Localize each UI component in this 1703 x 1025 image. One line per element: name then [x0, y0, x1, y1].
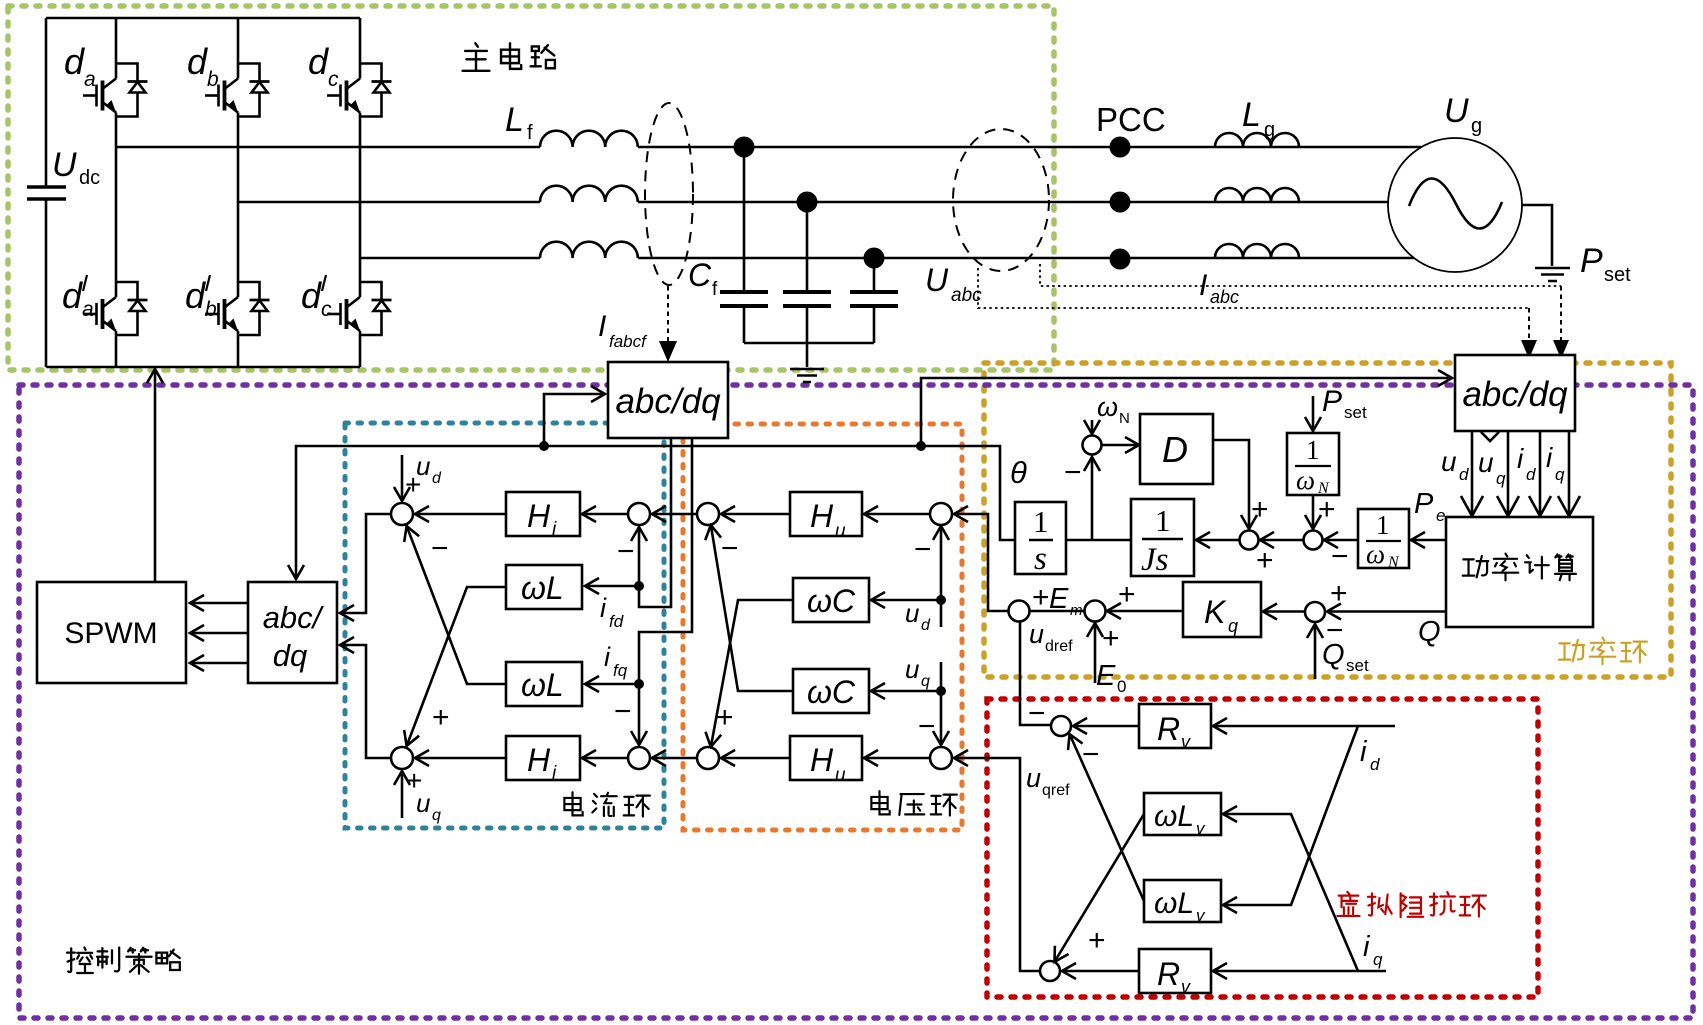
wire V2 out — [653, 757, 697, 760]
wire RT out to A — [1020, 621, 1051, 725]
svg-text:c: c — [321, 298, 332, 321]
phase line b — [238, 201, 1388, 204]
wire theta to mid abc/dq — [544, 394, 604, 446]
current-loop region box (teal dashed) — [345, 423, 664, 828]
capacitor Cf phase b — [783, 202, 831, 343]
block abc/dq small — [248, 582, 337, 683]
capacitor Cf phase a — [720, 147, 768, 343]
svg-text:I: I — [1199, 269, 1207, 302]
svg-text:qref: qref — [1042, 782, 1070, 799]
wire Hi top out — [416, 513, 506, 516]
svg-text:d: d — [432, 470, 442, 487]
svg-text:ωL: ωL — [1154, 800, 1194, 833]
svg-text:v: v — [1181, 977, 1191, 997]
svg-text:ω: ω — [1296, 465, 1315, 495]
wire T2 out — [341, 645, 391, 758]
svg-text:ω: ω — [1366, 539, 1385, 569]
junction dot u_q — [936, 686, 946, 696]
wire i_d line — [1214, 725, 1395, 728]
svg-text:d: d — [62, 275, 83, 316]
wire 1/Js to 1/s — [1066, 539, 1131, 542]
block D — [1140, 414, 1213, 484]
svg-text:i: i — [1360, 736, 1368, 768]
wire B to A — [1029, 610, 1085, 613]
stub E_0 — [1094, 624, 1097, 683]
block Hi top — [506, 492, 580, 536]
wire T1 out — [341, 514, 391, 613]
svg-text:f: f — [712, 279, 718, 300]
svg-text:q: q — [1555, 465, 1565, 484]
svg-text:D: D — [1162, 429, 1188, 470]
svg-text:+: + — [1088, 924, 1106, 957]
DC left rail upper segment — [45, 18, 48, 187]
summing circle W3 — [1304, 531, 1323, 550]
wire Q to W4 — [1328, 610, 1446, 613]
stub P_set — [1312, 396, 1315, 430]
label 电压环 (voltage loop) — [871, 791, 956, 815]
summing circle V4 — [930, 747, 952, 769]
wire i_fd — [639, 438, 671, 607]
svg-text:u: u — [1026, 763, 1041, 793]
svg-text:U: U — [52, 146, 77, 184]
svg-text:u: u — [416, 788, 430, 818]
ground of filter — [790, 369, 824, 382]
block abc/dq right — [1455, 355, 1575, 431]
wire u_d to wC — [872, 599, 941, 602]
grid source Ug — [1388, 138, 1522, 272]
leg A wire segments — [115, 18, 118, 367]
block Rv top — [1139, 704, 1211, 748]
svg-text:1: 1 — [1306, 435, 1320, 465]
wire Hu top out — [722, 513, 790, 516]
control-strategy region box (purple dashed) — [19, 385, 1693, 1018]
stub u_q — [401, 772, 404, 818]
svg-text:i: i — [1363, 931, 1371, 963]
junction dot i_fd — [634, 581, 644, 591]
svg-text:d: d — [187, 41, 208, 82]
summing circle V2 — [697, 747, 719, 769]
block 1/Js — [1131, 499, 1194, 576]
label 虚拟阻抗环 (virtual impedance loop, red) — [1337, 892, 1485, 917]
svg-text:θ: θ — [1010, 455, 1027, 490]
summing circle RT — [1051, 716, 1071, 736]
wire T3 out — [583, 513, 628, 516]
block power calc — [1446, 517, 1593, 627]
DC bus bottom rail — [46, 366, 360, 369]
block Kq — [1183, 582, 1261, 637]
svg-text:U: U — [1444, 92, 1469, 130]
block wLv top — [1144, 793, 1221, 835]
wires abc/dq to SPWM — [191, 602, 248, 605]
svg-text:−: − — [918, 710, 936, 743]
dotted measurement line U — [978, 268, 1529, 308]
wire u_q output down — [1507, 431, 1510, 515]
wire W1 to D — [1101, 444, 1138, 447]
junction dot u_d — [936, 595, 946, 605]
svg-text:i: i — [1517, 443, 1524, 474]
svg-text:N: N — [1119, 410, 1130, 427]
svg-text:a: a — [82, 298, 94, 321]
svg-text:q: q — [432, 807, 441, 824]
svg-text:d: d — [921, 617, 931, 634]
svg-text:fabcf: fabcf — [609, 332, 648, 351]
block wL bottom — [506, 662, 582, 706]
dashed arrow I_fabcf into abc/dq — [667, 286, 669, 344]
svg-text:v: v — [1181, 732, 1191, 752]
svg-text:Q: Q — [1418, 616, 1441, 648]
svg-text:dq: dq — [273, 638, 308, 673]
svg-text:s: s — [1034, 541, 1047, 577]
DC left rail lower segment — [45, 199, 48, 367]
wire u_q to wC — [872, 690, 941, 693]
wire theta to right abc/dq — [921, 378, 1451, 446]
main-circuit region box (green dashed) — [8, 6, 1054, 370]
junction dot i_fq — [634, 679, 644, 689]
wire i_d cross to wLv bottom — [1224, 726, 1358, 905]
wire wC top cross to V2 — [711, 600, 793, 746]
svg-text:R: R — [1157, 956, 1180, 992]
junction dot phase b — [797, 192, 818, 213]
svg-text:dref: dref — [1045, 638, 1073, 655]
wire W3 to W2 — [1261, 539, 1303, 542]
capacitor Udc plates — [27, 187, 66, 199]
wire omega feedback — [1091, 458, 1094, 540]
svg-text:u: u — [1478, 447, 1494, 478]
svg-text:d: d — [185, 275, 206, 316]
svg-text:SPWM: SPWM — [64, 617, 157, 650]
svg-text:u: u — [835, 765, 846, 786]
wire u_d net — [940, 527, 943, 627]
summing circle T2 — [391, 747, 413, 769]
svg-text:N: N — [1387, 554, 1400, 571]
voltage-loop region box (orange dashed) — [683, 424, 962, 830]
svg-text:d: d — [1370, 755, 1380, 774]
block Hu top — [790, 492, 862, 536]
summing circle B — [1085, 601, 1106, 622]
svg-text:PCC: PCC — [1096, 101, 1166, 138]
svg-text:set: set — [1344, 403, 1367, 422]
svg-text:d: d — [1459, 465, 1469, 484]
summing circle W2 — [1240, 531, 1259, 550]
svg-text:u: u — [905, 598, 919, 628]
svg-text:q: q — [1373, 950, 1383, 969]
svg-text:P: P — [1322, 385, 1342, 418]
svg-text:−: − — [1028, 697, 1046, 730]
block 1/wN top — [1287, 433, 1339, 495]
measurement ellipse at PCC — [953, 129, 1049, 271]
svg-text:f: f — [527, 122, 533, 144]
svg-text:i: i — [600, 593, 607, 623]
svg-text:fq: fq — [613, 661, 628, 680]
capacitor bank common bus — [744, 343, 874, 367]
svg-text:u: u — [416, 451, 430, 481]
wire wL bottom cross to T1 — [407, 527, 506, 684]
svg-text:q: q — [921, 673, 930, 690]
svg-text:g: g — [1471, 115, 1482, 137]
svg-text:ω: ω — [1097, 392, 1118, 422]
svg-text:abc/dq: abc/dq — [1462, 375, 1568, 414]
svg-text:−: − — [1064, 456, 1082, 489]
svg-text:H: H — [810, 742, 834, 778]
svg-text:C: C — [688, 257, 712, 293]
svg-text:H: H — [810, 498, 834, 534]
wire V3 out — [865, 513, 930, 516]
svg-text:q: q — [1228, 616, 1238, 636]
svg-text:abc/: abc/ — [263, 600, 325, 635]
svg-text:H: H — [527, 498, 551, 534]
transistor d'_b — [205, 282, 270, 335]
summing circle V3 — [930, 503, 952, 525]
inductor Lg phase b — [1215, 188, 1299, 202]
svg-text:+: + — [432, 701, 450, 734]
wire u_d output down — [1471, 431, 1474, 515]
transistor d'_a — [83, 282, 148, 335]
svg-text:d: d — [64, 41, 85, 82]
summing circle T1 — [391, 503, 413, 525]
svg-text:set: set — [1346, 656, 1369, 675]
inductor Lg phase a — [1215, 133, 1299, 147]
svg-text:H: H — [527, 742, 551, 778]
svg-text:+: + — [1118, 578, 1136, 611]
wire V1 out — [653, 513, 697, 516]
label 控制策略 (control strategy) — [67, 948, 180, 974]
svg-text:+: + — [1102, 622, 1120, 655]
svg-text:K: K — [1204, 594, 1227, 630]
wire W4 to Kq — [1264, 610, 1305, 613]
DC bus top rail — [46, 17, 360, 20]
PCC dot phase a — [1110, 137, 1131, 158]
wire 1/wN low to W3 — [1325, 539, 1358, 542]
summing circle W1 — [1083, 436, 1102, 455]
dashed drop U into abc/dq — [1528, 308, 1530, 342]
block Rv bottom — [1139, 949, 1211, 993]
wire i_q line — [1214, 970, 1386, 973]
transistor d_b — [205, 64, 270, 117]
svg-text:d: d — [308, 41, 329, 82]
block SPWM — [37, 582, 186, 683]
stub u_d — [401, 455, 404, 500]
inductor Lf phase b — [540, 186, 638, 202]
svg-text:b: b — [207, 68, 219, 91]
block abc/dq mid — [608, 362, 728, 438]
svg-text:b: b — [205, 298, 217, 321]
wire Hi bottom out — [416, 757, 506, 760]
svg-text:ωL: ωL — [1154, 887, 1194, 920]
wire V4 out — [865, 757, 930, 760]
wire SPWM to bridge — [154, 370, 157, 582]
block Hi bottom — [506, 736, 580, 780]
block wC bottom — [793, 669, 869, 713]
svg-text:abc/dq: abc/dq — [615, 382, 721, 421]
inductor Lg phase c — [1215, 244, 1299, 258]
svg-text:R: R — [1157, 711, 1180, 747]
label 主电路 (main circuit) — [463, 43, 555, 71]
wire W2 to 1/Js — [1197, 539, 1239, 542]
virtual-impedance region box (red dashed) — [987, 699, 1538, 997]
dashed drop I into abc/dq — [1560, 286, 1562, 342]
svg-text:+: + — [1256, 544, 1274, 577]
svg-text:−: − — [1331, 540, 1349, 573]
wire u_qref RB to V4 — [955, 758, 1040, 971]
svg-text:+: + — [716, 701, 734, 734]
wire Kq to B — [1108, 610, 1183, 613]
svg-text:u: u — [835, 521, 846, 542]
inductor Lf phase a — [540, 131, 638, 147]
wire i_fq to wL — [586, 683, 639, 686]
leg B wire segments — [237, 18, 240, 367]
wire Rv top to RT — [1074, 725, 1139, 728]
summing circle RB — [1040, 961, 1060, 981]
block 1/wN low — [1358, 509, 1409, 568]
wire Pcalc to 1/wN low — [1412, 539, 1446, 542]
svg-text:1: 1 — [1376, 510, 1390, 540]
wire i_q output down — [1568, 431, 1571, 515]
junction dot phase c — [864, 248, 885, 269]
wire u_q net — [940, 662, 943, 744]
inductor Lf phase c — [540, 242, 638, 258]
svg-text:−: − — [614, 695, 632, 728]
svg-text:L: L — [1242, 96, 1261, 134]
measurement ellipse at Lf output — [645, 103, 693, 285]
junction dot phase a — [734, 137, 755, 158]
wire D to W2 — [1213, 440, 1249, 528]
wire i_d output down — [1539, 431, 1542, 515]
wire i_fq — [639, 438, 692, 744]
wire Rv bottom to RB — [1063, 970, 1139, 973]
svg-text:−: − — [721, 532, 739, 565]
chevron below abc/dq — [1481, 432, 1499, 441]
svg-text:g: g — [1264, 119, 1275, 141]
wire 1/wN top to W3 — [1312, 495, 1315, 528]
svg-text:1: 1 — [1155, 503, 1171, 538]
svg-text:+: + — [1251, 493, 1269, 526]
ground of grid — [1535, 268, 1570, 281]
wire i_fd to wL — [586, 585, 639, 588]
svg-text:−: − — [914, 533, 932, 566]
svg-text:U: U — [925, 262, 949, 298]
phase line a — [116, 146, 1421, 149]
block wLv bottom — [1144, 880, 1221, 922]
phase line c — [360, 257, 1414, 260]
block wL top — [506, 565, 582, 609]
summing circle T3 — [628, 503, 650, 525]
svg-text:u: u — [905, 654, 919, 684]
wire wC bottom cross to V1 — [711, 526, 793, 691]
svg-text:ωL: ωL — [521, 570, 564, 606]
wire wLv top to RB — [1055, 814, 1144, 961]
svg-text:−: − — [1082, 738, 1100, 771]
svg-text:P: P — [1580, 242, 1603, 280]
svg-text:u: u — [1441, 446, 1457, 477]
svg-text:+: + — [1032, 581, 1050, 614]
junction dot theta 2 — [916, 441, 926, 451]
svg-text:I: I — [598, 310, 606, 343]
svg-text:P: P — [1414, 488, 1434, 520]
leg C wire segments — [359, 18, 362, 367]
svg-text:d: d — [1526, 465, 1536, 484]
svg-text:u: u — [1029, 619, 1044, 649]
svg-text:ωC: ωC — [807, 583, 856, 619]
summing circle A — [1009, 601, 1030, 622]
junction dot theta 1 — [539, 441, 549, 451]
transistor d'_c — [327, 282, 392, 335]
stub Q_set — [1314, 625, 1317, 679]
svg-text:−: − — [431, 532, 449, 565]
wire T4 out — [583, 757, 628, 760]
svg-text:0: 0 — [1117, 677, 1126, 696]
svg-text:L: L — [505, 101, 524, 139]
svg-text:E: E — [1049, 583, 1069, 615]
block Hu bottom — [790, 736, 862, 780]
svg-text:d: d — [301, 275, 322, 316]
dotted measurement line I — [1040, 264, 1561, 286]
block 1/s — [1015, 502, 1066, 574]
summing circle T4 — [628, 747, 650, 769]
svg-text:ωL: ωL — [521, 667, 564, 703]
svg-text:e: e — [1436, 506, 1445, 525]
svg-text:i: i — [604, 642, 611, 672]
svg-text:q: q — [1496, 469, 1506, 488]
wire i_q cross to wLv top — [1224, 814, 1358, 971]
grid neutral wire — [1522, 205, 1552, 266]
label 电流环 (current loop) — [564, 792, 649, 816]
svg-text:ωC: ωC — [807, 674, 856, 710]
capacitor Cf phase c — [850, 258, 898, 343]
stub omega_N — [1091, 420, 1094, 433]
power-loop region box (dark-yellow dashed) — [984, 363, 1671, 677]
block wC top — [793, 578, 869, 622]
svg-text:a: a — [84, 68, 96, 91]
wire wLv bottom to RT — [1070, 735, 1144, 901]
svg-text:E: E — [1096, 660, 1116, 692]
summing circle W4 — [1305, 602, 1325, 622]
summing circle V1 — [697, 503, 719, 525]
svg-text:−: − — [617, 535, 635, 568]
wire Hu bottom out — [722, 757, 790, 760]
transistor d_a — [83, 64, 148, 117]
svg-text:dc: dc — [79, 167, 100, 189]
svg-text:Js: Js — [1141, 542, 1169, 578]
PCC dot phase c — [1110, 249, 1131, 270]
svg-text:+: + — [1318, 493, 1336, 526]
svg-text:fd: fd — [609, 612, 624, 631]
svg-text:c: c — [328, 68, 339, 91]
wire u_dref A to V3 — [955, 514, 1009, 611]
PCC dot phase b — [1110, 192, 1131, 213]
svg-text:set: set — [1604, 264, 1631, 286]
transistor d_c — [327, 64, 392, 117]
svg-text:m: m — [1070, 602, 1083, 619]
svg-text:abc: abc — [1210, 287, 1239, 307]
wire theta distribution — [296, 446, 1015, 578]
svg-text:i: i — [1546, 442, 1553, 473]
svg-text:1: 1 — [1033, 504, 1049, 539]
label 功率环 (power loop, khaki) — [1559, 638, 1647, 665]
svg-text:+: + — [1330, 577, 1348, 610]
svg-text:Q: Q — [1322, 639, 1345, 671]
wire wL top cross to T2 — [407, 587, 506, 745]
